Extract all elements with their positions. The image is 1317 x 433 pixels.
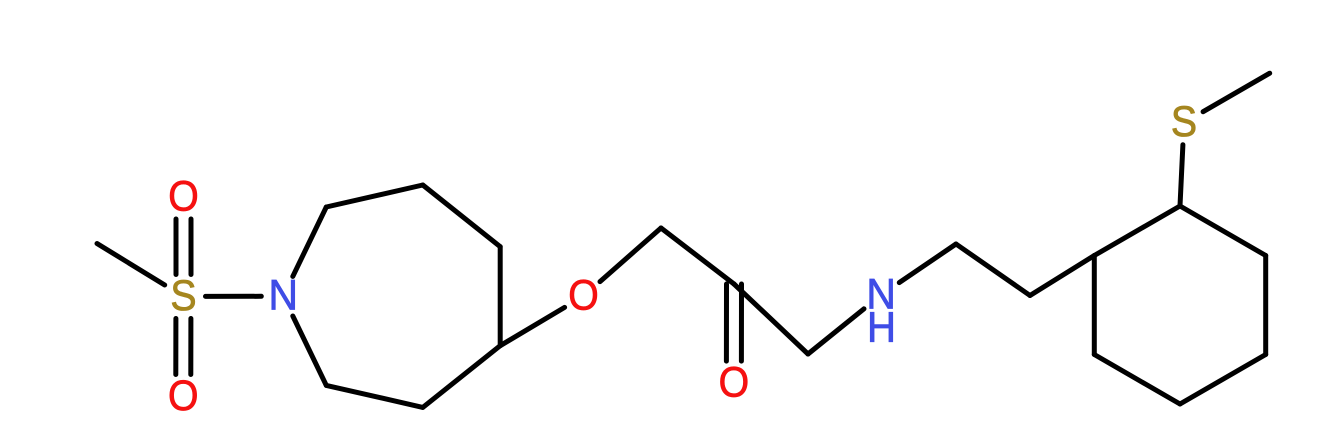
svg-text:O: O	[719, 360, 750, 407]
svg-text:H: H	[867, 304, 896, 351]
svg-text:S: S	[1171, 99, 1197, 146]
svg-text:O: O	[168, 174, 199, 221]
svg-text:S: S	[170, 273, 196, 320]
svg-text:N: N	[269, 273, 299, 320]
svg-text:O: O	[568, 273, 599, 320]
svg-text:O: O	[168, 373, 199, 420]
